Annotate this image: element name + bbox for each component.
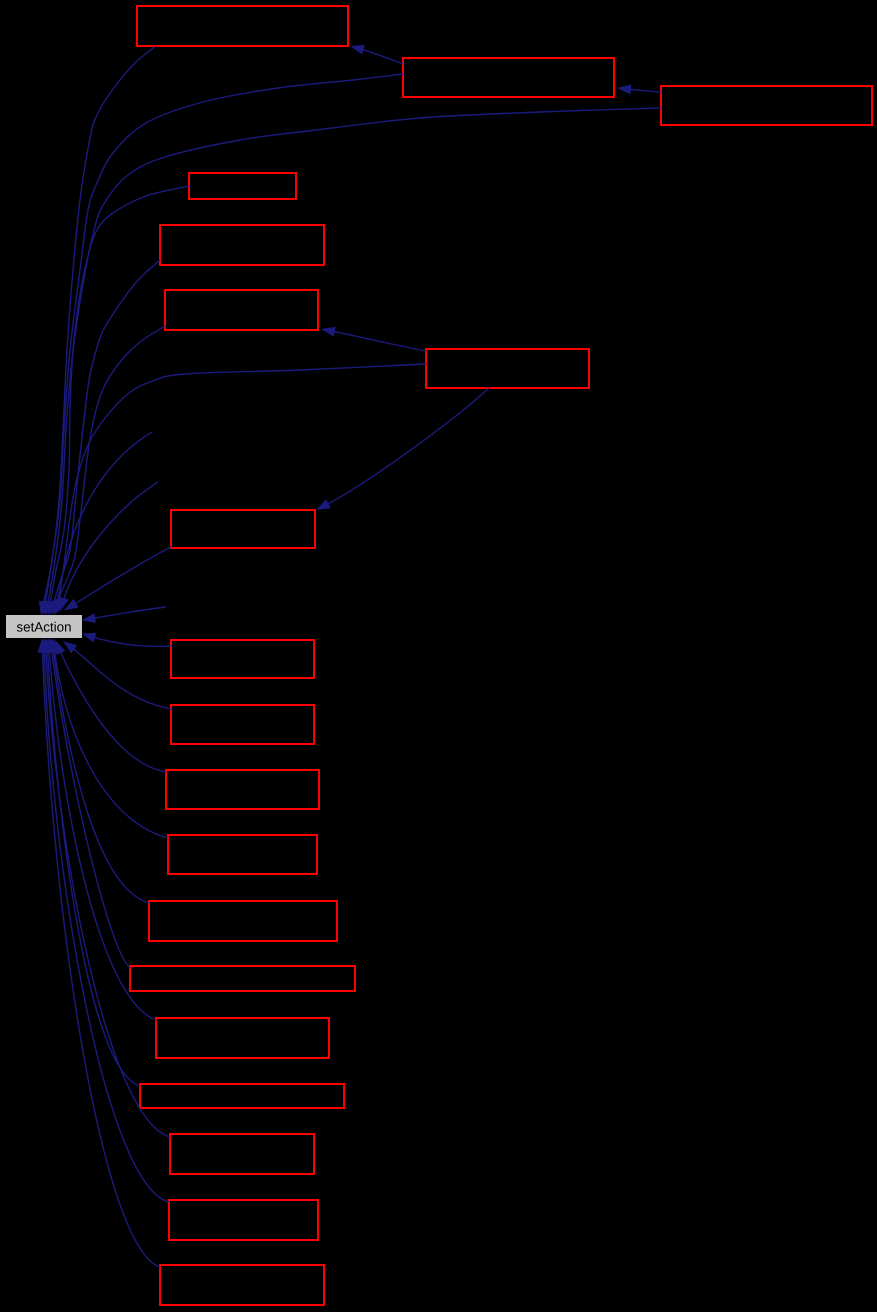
node b2 (truncated caller box, red)	[403, 58, 614, 97]
edge ef3 (hidden)->setAction	[63, 482, 158, 602]
edge e1 b1->setAction	[43, 46, 156, 605]
node setAction (current function, grey)	[6, 615, 82, 638]
node b7 (truncated caller box, red)	[426, 349, 589, 388]
edge eb7b6 b7->b6	[331, 331, 426, 351]
node b11 (truncated caller box, red)	[166, 770, 319, 809]
edge e17 b17->setAction	[46, 649, 170, 1137]
edge e6 b6->setAction	[56, 326, 165, 607]
edge e2 b2->setAction	[45, 74, 403, 605]
node b15 (truncated caller box, red)	[156, 1018, 329, 1058]
label "setAction" (text as outlines)	[17, 622, 71, 632]
edge e19 b19->setAction	[42, 649, 160, 1267]
edge eb3b2 b3->b2	[627, 89, 661, 92]
node b18 (truncated caller box, red)	[169, 1200, 318, 1240]
edge e16 b16->setAction	[47, 649, 140, 1086]
edge e3 b3->setAction	[47, 108, 661, 605]
edge e15 b15->setAction	[49, 649, 156, 1020]
edge e18 b18->setAction	[44, 649, 169, 1202]
edge e12 b12->setAction	[54, 649, 168, 838]
node b10 (truncated caller box, red)	[171, 705, 314, 744]
edge e7 b7->setAction	[56, 364, 426, 608]
edge e5 b5->setAction	[53, 260, 160, 607]
edge eb7b8 b7->b8	[325, 388, 489, 505]
edge ef2 (hidden)->setAction	[59, 432, 152, 603]
node b14 (truncated caller box, red)	[130, 966, 355, 991]
node b1 (truncated caller box, red)	[137, 6, 348, 46]
node b16 (truncated caller box, red)	[140, 1084, 344, 1108]
edge e13 b13->setAction	[53, 649, 149, 903]
edge e4 b4->setAction	[50, 186, 189, 606]
node b9 (truncated caller box, red)	[171, 640, 314, 678]
node b5 (truncated caller box, red)	[160, 225, 324, 265]
edge e14 b14->setAction	[51, 649, 130, 968]
edge e11 b11->setAction	[59, 650, 166, 772]
node b17 (truncated caller box, red)	[170, 1134, 314, 1174]
edge e8 b8->setAction	[73, 547, 171, 605]
node b19 (truncated caller box, red)	[160, 1265, 324, 1305]
edge eb2b1 b2->b1	[360, 49, 403, 64]
node b12 (truncated caller box, red)	[168, 835, 317, 874]
edge e10 b10->setAction	[71, 647, 171, 709]
edge efloat (hidden)->setAction	[92, 607, 166, 619]
node b4 (truncated caller box, red)	[189, 173, 296, 199]
node b13 (truncated caller box, red)	[149, 901, 337, 941]
node b8 (truncated caller box, red)	[171, 510, 315, 548]
node b3 (truncated caller box, red)	[661, 86, 872, 125]
node b6 (truncated caller box, red)	[165, 290, 318, 330]
edge e9 b9->setAction	[92, 637, 172, 647]
